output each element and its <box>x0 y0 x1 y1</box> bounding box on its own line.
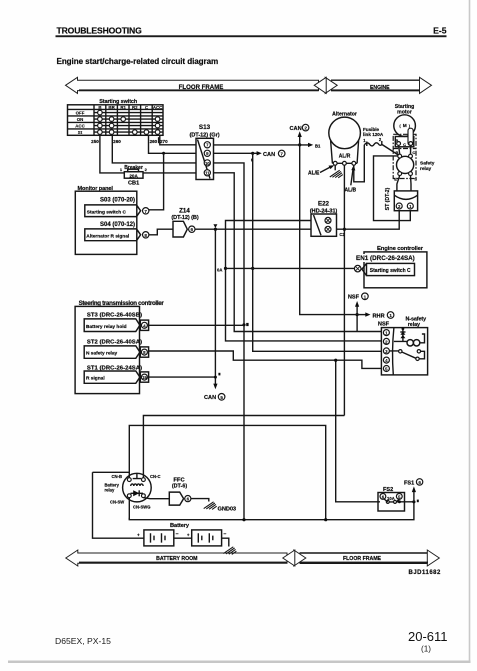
svg-text:6: 6 <box>191 227 194 232</box>
connector Z14 (DT-12) (B) <box>171 207 198 237</box>
svg-text:AL/R: AL/R <box>339 154 351 160</box>
NSF(1) arrow <box>348 293 368 332</box>
svg-text:RHR: RHR <box>373 313 385 319</box>
svg-text:AL/B: AL/B <box>345 188 357 194</box>
banner FLOOR FRAME (bottom) <box>300 550 440 566</box>
svg-text:EN1 (DRC-26-24SA): EN1 (DRC-26-24SA) <box>356 255 415 262</box>
wire starting motor C to safety relay C <box>410 145 412 154</box>
svg-text:S: S <box>414 177 417 182</box>
wire ST pin2 to E22 lower row <box>337 211 400 230</box>
pin 7 <box>204 142 210 148</box>
svg-text:R2: R2 <box>132 105 138 110</box>
diode <box>402 327 405 330</box>
svg-text:Alternator R signal: Alternator R signal <box>86 234 129 240</box>
starting switch table <box>68 99 169 144</box>
svg-text:Safety: Safety <box>420 160 435 166</box>
svg-text:Engine start/charge-related ci: Engine start/charge-related circuit diag… <box>57 57 219 66</box>
FS1 arrow <box>413 490 415 502</box>
svg-text:St: St <box>78 130 83 135</box>
svg-text:B: B <box>396 150 399 155</box>
wire junction down to S03 pin 7 <box>149 153 164 210</box>
svg-text:S04 (070-12): S04 (070-12) <box>100 222 135 228</box>
svg-text:+: + <box>137 532 140 537</box>
solid terminal box <box>395 137 414 147</box>
wire CN-SW drop <box>128 498 130 520</box>
svg-text:20A: 20A <box>129 173 138 178</box>
svg-text:M: M <box>403 123 407 129</box>
wire AL/B to fusible link <box>354 145 365 182</box>
wire B column to breaker <box>100 135 124 173</box>
RHR(1) arrow <box>357 312 394 320</box>
wire fusible link to starting motor B node <box>382 144 400 156</box>
connector ST2 (DRC-26-40SA) N safety relay <box>84 340 148 359</box>
svg-text:CAN: CAN <box>263 152 275 158</box>
wire breaker to S13 pin 11 <box>143 172 196 174</box>
svg-text:E: E <box>394 177 397 182</box>
terminal B <box>397 142 401 146</box>
svg-text:BATTERY ROOM: BATTERY ROOM <box>156 556 197 562</box>
wire S13 pin7 right with B1 arrow <box>214 144 310 146</box>
svg-text:FFC: FFC <box>173 478 185 484</box>
svg-text:AL/E: AL/E <box>308 170 320 176</box>
svg-text:NSF: NSF <box>378 322 390 328</box>
svg-text:15: 15 <box>142 375 147 380</box>
wire C: CAN7 junction down to NSF pin 3 <box>253 153 382 351</box>
svg-text:7: 7 <box>144 209 147 214</box>
coil <box>407 340 413 346</box>
wire H1 alternator R to battery relay CN-C <box>143 416 344 478</box>
wire ST2 jog to NSF pin 5 <box>149 351 382 368</box>
svg-text:−: − <box>223 532 226 538</box>
terminal AL/R <box>343 161 347 165</box>
svg-text:S03 (070-20): S03 (070-20) <box>100 198 135 204</box>
svg-text:(1): (1) <box>421 645 431 654</box>
svg-text:+: + <box>187 532 190 537</box>
wire V1 FS2 to NSF pin4/5 row <box>336 360 380 502</box>
junction to S03 <box>162 152 165 155</box>
row lines <box>68 108 164 110</box>
junction CAN5 drop <box>214 228 217 231</box>
banner X crossing (bottom) <box>283 550 306 566</box>
pin 9 <box>204 150 210 156</box>
wire FS2 output junction <box>397 501 414 503</box>
svg-text:relay: relay <box>420 166 432 172</box>
svg-text:E-5: E-5 <box>433 26 447 36</box>
svg-text:relay: relay <box>105 488 115 493</box>
svg-text:(DT-12) (Gr): (DT-12) (Gr) <box>189 132 219 138</box>
svg-text:Battery: Battery <box>170 523 190 529</box>
junction CAN2 <box>298 143 301 146</box>
svg-text:C: C <box>403 142 406 147</box>
svg-text:E22: E22 <box>318 201 330 208</box>
wire C column to S13 pin 9 <box>149 135 197 153</box>
svg-text:250: 250 <box>91 139 99 144</box>
svg-text:10: 10 <box>205 161 210 166</box>
svg-text:2: 2 <box>304 126 307 131</box>
banner X crossing (top) <box>314 77 337 93</box>
svg-text:Starting switch C: Starting switch C <box>370 268 411 274</box>
ground after battery 2 <box>223 547 236 555</box>
monitor panel box <box>75 186 137 255</box>
dash-dot enclosure (motor + safety relay) <box>393 134 416 178</box>
terminal AL/E <box>333 161 337 165</box>
svg-text:R1: R1 <box>120 105 126 110</box>
pins 1-5 <box>383 330 389 336</box>
CAN2 arrow <box>299 135 301 145</box>
wire battery relay to FFC <box>143 498 169 499</box>
battery group <box>93 472 237 554</box>
svg-text:ST (DT-2): ST (DT-2) <box>385 187 391 210</box>
svg-text:FLOOR FRAME: FLOOR FRAME <box>179 84 224 91</box>
connector S04 (070-12) Alternator R signal <box>85 222 149 241</box>
wire from loop to battery1 <box>93 472 144 538</box>
label AL/B with arrow <box>345 165 357 194</box>
wire AL/R down (V2) <box>343 165 345 415</box>
svg-text:FS1: FS1 <box>404 480 414 486</box>
svg-text:B: B <box>395 138 398 143</box>
wire starting motor B to safety relay B <box>399 145 400 154</box>
alternator <box>329 111 361 165</box>
terminal AL/B <box>352 161 356 165</box>
page edge shadow right <box>469 0 471 662</box>
banner FLOOR FRAME (top) <box>66 77 319 93</box>
svg-text:260: 260 <box>150 139 158 144</box>
svg-text:1: 1 <box>364 294 367 299</box>
svg-text:TROUBLESHOOTING: TROUBLESHOOTING <box>57 26 143 36</box>
terminal C <box>409 142 413 146</box>
svg-text:D65EX, PX-15: D65EX, PX-15 <box>55 636 111 646</box>
svg-text:0A: 0A <box>217 268 222 273</box>
banner ENGINE (top) <box>331 77 432 93</box>
wire bottom power line <box>129 502 414 520</box>
svg-text:20-611: 20-611 <box>408 629 448 644</box>
svg-text:ENGINE: ENGINE <box>370 85 390 91</box>
contacts <box>399 350 402 353</box>
wire BR column to S13 pin 10 <box>112 135 196 163</box>
steering transmission controller box <box>75 300 164 394</box>
fusible link 120A <box>363 127 400 156</box>
svg-text:CAN: CAN <box>290 126 302 132</box>
connector E22 (HD-24-31) <box>310 201 346 238</box>
svg-text:CN-SW: CN-SW <box>110 500 124 505</box>
wire H2 battery relay CN-B power loop <box>129 425 325 519</box>
connector EN1 pin <box>354 263 414 275</box>
wire ST pin1 loop to B node <box>374 156 411 221</box>
wire ST1 to CAN5 vertical <box>149 376 216 378</box>
svg-text:FLOOR FRAME: FLOOR FRAME <box>343 556 382 562</box>
column header separators <box>93 105 95 136</box>
svg-text:GND03: GND03 <box>218 507 236 513</box>
svg-text:CN-SWG: CN-SWG <box>133 504 150 509</box>
battery relay <box>105 473 161 509</box>
svg-text:Starting switch: Starting switch <box>99 99 138 105</box>
fuse FS2 10A <box>378 487 405 511</box>
svg-text:270: 270 <box>160 139 168 144</box>
svg-text:R signal: R signal <box>86 376 105 382</box>
header rule <box>56 35 447 37</box>
svg-text:ON: ON <box>77 117 84 122</box>
svg-text:ST2 (DRC-26-40SA): ST2 (DRC-26-40SA) <box>87 340 142 346</box>
wire from CAN2 vertical to RHR junction <box>300 145 357 315</box>
svg-text:C: C <box>412 150 415 155</box>
battery 2 <box>192 530 222 546</box>
safety relay <box>394 150 434 182</box>
breaker CB1 20A <box>120 165 148 187</box>
ground below AL/E terminal <box>330 165 343 178</box>
svg-text:BR: BR <box>108 105 115 110</box>
starting motor <box>393 104 416 179</box>
wire EN1 row: to engine controller pin <box>226 267 355 269</box>
contact mid lines <box>94 112 163 114</box>
svg-text:ACC: ACC <box>153 105 163 110</box>
CAN7 arrow <box>253 152 258 154</box>
connector S13 (DT-12) (Gr) <box>189 124 219 180</box>
svg-text:C2: C2 <box>339 232 345 237</box>
contact circles <box>98 110 160 134</box>
svg-text:Starting switch C: Starting switch C <box>87 210 127 216</box>
svg-text:NSF: NSF <box>348 295 360 301</box>
wire FFC to ground GND03 <box>191 499 209 502</box>
svg-text:260: 260 <box>113 139 121 144</box>
label AL/E with arrow <box>308 165 334 176</box>
svg-text:5: 5 <box>220 395 223 400</box>
connector ST3 (DRC-26-40SB) Battery relay hold <box>84 313 148 332</box>
connector S03 (070-20) Starting switch C <box>85 198 149 217</box>
svg-text:link 120A: link 120A <box>363 132 384 137</box>
svg-text:11: 11 <box>205 171 210 176</box>
svg-text:S13: S13 <box>199 124 211 131</box>
svg-text:CAN: CAN <box>204 395 216 401</box>
wire S13 pin9 to CAN7 junction <box>214 152 253 154</box>
connector ST1 (DRC-26-24SA) R signal <box>84 366 148 384</box>
svg-text:6: 6 <box>418 480 421 485</box>
wire ST3 to junction on B <box>149 324 244 326</box>
coil <box>131 484 143 486</box>
N-safety relay <box>378 316 428 375</box>
svg-text:N safety relay: N safety relay <box>86 351 118 357</box>
wire A: S13 pin 11 down to NSF pin 1 <box>214 173 383 332</box>
svg-text:ST3 (DRC-26-40SB): ST3 (DRC-26-40SB) <box>87 313 142 319</box>
wire D: E22 top pin row down to NSF pin 2 <box>226 221 383 341</box>
solenoid <box>408 128 413 145</box>
svg-text:CN-B: CN-B <box>112 474 122 479</box>
pin 11 <box>204 170 210 176</box>
ground GND03 <box>204 502 236 513</box>
svg-text:OFF: OFF <box>76 111 85 116</box>
connector ST (DT-2) <box>385 187 418 210</box>
svg-text:−: − <box>176 532 179 538</box>
svg-text:(DT-6): (DT-6) <box>172 484 187 490</box>
svg-text:BJD11682: BJD11682 <box>409 570 442 576</box>
svg-text:Battery relay hold: Battery relay hold <box>86 324 127 330</box>
terminals <box>127 478 131 482</box>
svg-text:CN-C: CN-C <box>150 474 160 479</box>
page edge shadow bottom <box>8 661 471 664</box>
svg-text:B: B <box>98 105 101 110</box>
svg-text:7: 7 <box>280 152 283 157</box>
pin 10 <box>204 160 210 166</box>
wires safety relay to ST connector <box>397 176 400 191</box>
battery 1 <box>144 530 174 546</box>
svg-text:ACC: ACC <box>75 124 85 129</box>
wire Z14 to E22 lower pin <box>195 228 311 230</box>
diode <box>131 492 144 494</box>
engine controller box <box>355 246 427 288</box>
svg-text:CB1: CB1 <box>128 181 139 187</box>
svg-text:B1: B1 <box>315 143 321 148</box>
connector FFC (DT-6) <box>169 478 191 506</box>
banner BATTERY ROOM (bottom) <box>66 550 287 566</box>
wire ACC column to S13 pin 7 <box>160 135 196 145</box>
wire B: S13 pin10 down to bottom power line <box>214 163 245 520</box>
wire S04 to Z14 <box>149 229 173 235</box>
svg-text:Z14: Z14 <box>179 207 190 214</box>
wire CAN5 vertical <box>214 229 216 385</box>
svg-text:8: 8 <box>144 233 147 238</box>
svg-text:(DT-12) (B): (DT-12) (B) <box>171 215 198 221</box>
svg-text:1: 1 <box>389 313 392 318</box>
